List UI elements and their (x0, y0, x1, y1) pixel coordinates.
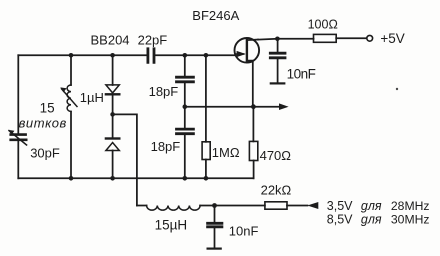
wire drain line (258, 38, 314, 41)
svg-text:1µH: 1µH (80, 90, 104, 105)
svg-text:18pF: 18pF (151, 139, 181, 154)
resistor R1 1M (205, 55, 207, 142)
capacitor C3 18pF lower (184, 107, 186, 129)
svg-text:22pF: 22pF (138, 32, 168, 47)
capacitor C1 22pF (series) (148, 49, 154, 63)
svg-text:BB204: BB204 (91, 32, 130, 47)
svg-text:470Ω: 470Ω (260, 148, 292, 163)
resistor R4 22k (215, 205, 265, 207)
wire top rail (tank / gate line) (18, 54, 146, 56)
inductor L2 15uH (choke) (137, 205, 147, 207)
node dot L1 top (69, 53, 74, 58)
node dot R 1M top (204, 53, 209, 58)
ground bar C5 (208, 248, 221, 250)
terminal +5V (367, 35, 373, 41)
wire source node line with output arrow (185, 106, 279, 108)
svg-text:30MHz: 30MHz (391, 212, 430, 226)
ground bar C4 (271, 82, 285, 84)
svg-text:+5V: +5V (380, 31, 404, 46)
capacitor C trimmer 30pF plates (11, 135, 27, 140)
svg-text:30pF: 30pF (30, 146, 60, 161)
speck artifact (396, 88, 398, 90)
wire left vertical (tank branch) (17, 55, 19, 134)
transistor U1 BF246A (JFET) (235, 38, 260, 63)
trimmer arrow (9, 131, 27, 145)
svg-text:gля: gля (361, 212, 382, 226)
svg-text:3,5V: 3,5V (327, 199, 353, 213)
capacitor C4 10nF (drain decoupling) (277, 39, 279, 53)
svg-text:22kΩ: 22kΩ (261, 183, 292, 198)
svg-text:15: 15 (40, 100, 55, 115)
varactor diode D2 (BB204 bottom) (106, 137, 119, 139)
varactor diode D1 (BB204 top) (112, 55, 114, 85)
node dot choke / C5 (212, 203, 217, 208)
wire varactor tap to choke (113, 114, 137, 205)
node dot varactor top (110, 53, 115, 58)
node dot varactor centre tap (110, 112, 115, 117)
capacitor C5 10nF (tuning line decoupling) (214, 206, 216, 224)
resistor R3 470 ohm (252, 107, 254, 142)
tuning input arrow (307, 202, 318, 209)
svg-text:10nF: 10nF (287, 67, 316, 82)
capacitor C2 18pF upper (184, 55, 186, 77)
svg-text:100Ω: 100Ω (308, 18, 338, 32)
node dot C18a top (gate node) (183, 53, 188, 58)
inductor L1 1uH (15 turns, variable) (70, 55, 72, 85)
svg-text:8,5V: 8,5V (327, 212, 353, 226)
svg-text:вumкoв: вumкoв (19, 115, 67, 130)
svg-text:18pF: 18pF (149, 84, 179, 99)
svg-text:gля: gля (361, 199, 382, 213)
svg-text:10nF: 10nF (229, 223, 259, 238)
resistor R2 100 ohm (314, 34, 337, 42)
svg-text:1MΩ: 1MΩ (212, 145, 240, 160)
svg-text:BF246A: BF246A (192, 8, 239, 23)
svg-text:28MHz: 28MHz (391, 199, 430, 213)
L1 adjuster arrow (62, 89, 78, 107)
wire bottom rail (18, 177, 253, 179)
svg-text:15µH: 15µH (155, 218, 188, 233)
